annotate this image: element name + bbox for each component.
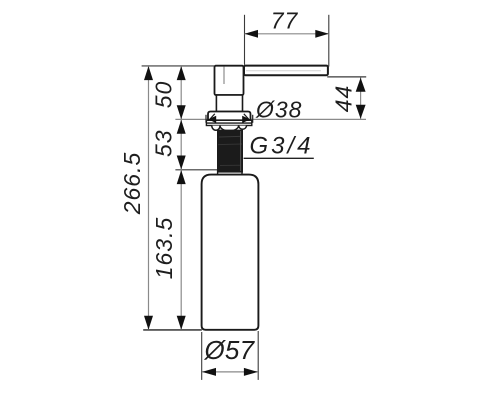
dimension line O38 left arrow	[208, 116, 216, 123]
arrow 50 top	[177, 66, 186, 80]
arrow O57 left	[202, 368, 216, 376]
svg-text:Ø57: Ø57	[204, 335, 256, 365]
svg-text:163.5: 163.5	[151, 217, 177, 280]
flange plate	[208, 112, 251, 121]
trim ring band	[206, 120, 251, 125]
dimension line 77	[245, 33, 329, 35]
svg-text:44: 44	[331, 85, 357, 113]
arrow 77 right	[315, 30, 329, 38]
extension line top left	[142, 65, 215, 67]
spout arm	[244, 66, 328, 76]
extension line O57 right	[257, 331, 259, 380]
trim ring midline	[206, 122, 251, 124]
arrow 266.5 top	[144, 66, 153, 80]
dimension line O38 right arrow	[242, 116, 250, 123]
O38 tick left	[205, 115, 207, 123]
pump head cap	[215, 66, 244, 95]
svg-text:50: 50	[151, 81, 177, 109]
arrow 53 bottom	[177, 156, 186, 170]
svg-text:G3/4: G3/4	[250, 133, 314, 160]
arrow 163.5 top	[177, 170, 186, 184]
arrow O57 right	[244, 368, 258, 376]
extension line 77 right	[328, 15, 330, 67]
pump head cap inner edge	[223, 67, 225, 85]
extension line O57 left	[201, 332, 203, 380]
svg-text:Ø38: Ø38	[255, 97, 302, 123]
arrow 77 left	[245, 30, 259, 38]
arrow 163.5 bottom	[177, 316, 186, 330]
extension line 77 left	[244, 15, 246, 65]
mounting nut lobes	[212, 126, 247, 131]
O38 tick right	[252, 115, 254, 123]
extension line bottom left	[143, 329, 202, 331]
pump head neck	[216, 95, 242, 112]
dimension line O57	[202, 371, 258, 373]
arrow 53 top	[177, 120, 186, 134]
bottle body	[202, 175, 259, 330]
bottle neck sides	[217, 170, 219, 175]
dimension line 50-53-163.5	[180, 66, 182, 330]
thread streaks	[219, 135, 240, 138]
dimension line 266.5	[148, 66, 150, 330]
arrow 44 bottom	[356, 105, 366, 119]
svg-text:77: 77	[271, 8, 299, 34]
leader line G3/4	[244, 157, 314, 159]
flange plate right bevel	[244, 114, 249, 119]
extension line bottle top left	[175, 169, 218, 171]
thread G3/4	[217, 130, 243, 173]
extension line 44 top	[327, 76, 366, 78]
extension line mid left (mount plane)	[175, 118, 366, 120]
dimension line 44	[360, 78, 362, 119]
flange plate left bevel	[210, 114, 215, 119]
arrow 266.5 bottom	[144, 316, 153, 330]
svg-text:266.5: 266.5	[119, 152, 145, 216]
arrow 50 bottom	[177, 105, 186, 119]
arrow 44 top	[356, 78, 366, 92]
svg-text:53: 53	[151, 129, 177, 157]
spout arm highlight line	[246, 70, 321, 72]
